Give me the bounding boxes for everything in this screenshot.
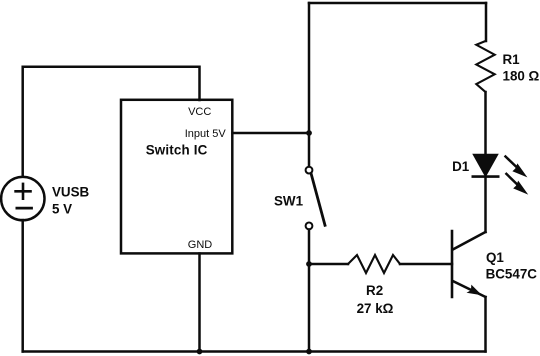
LED D1 triangle anode (474, 155, 498, 177)
svg-text:VUSB: VUSB (52, 185, 90, 200)
LED D1 light arrow 2 shaft (506, 174, 517, 185)
voltage source minus sign (17, 207, 32, 210)
wire R1 bottom to LED anode (484, 92, 487, 155)
node junction dot center rail/bottom (306, 349, 312, 355)
svg-text:180 Ω: 180 Ω (503, 69, 540, 84)
resistor R1 zigzag (476, 41, 494, 92)
wire left loop VUSB+ to VCC pin (23, 67, 200, 176)
svg-text:SW1: SW1 (274, 194, 304, 209)
switch SW1 bottom terminal (306, 223, 313, 230)
voltage source VUSB circle (1, 177, 44, 220)
switch SW1 blade (311, 174, 325, 225)
transistor Q1 collector stroke (453, 232, 486, 250)
svg-text:27 kΩ: 27 kΩ (357, 301, 394, 316)
svg-text:VCC: VCC (188, 106, 211, 118)
IC box Switch IC (121, 100, 232, 254)
switch SW1 top terminal (306, 167, 313, 174)
wire R2 to Q1 base (400, 263, 452, 266)
wire bottom rail (23, 350, 486, 353)
wire right rail upper (top to R1) (485, 3, 488, 41)
wire Q1 emitter to bottom rail (484, 297, 487, 352)
transistor Q1 emitter arrow head (467, 285, 483, 296)
svg-text:Switch IC: Switch IC (146, 143, 208, 158)
svg-text:Input 5V: Input 5V (185, 128, 227, 140)
resistor R2 zigzag (348, 255, 400, 273)
svg-text:R2: R2 (366, 283, 383, 298)
LED D1 cathode bar (473, 175, 498, 178)
transistor Q1 emitter stroke (453, 281, 486, 297)
node junction dot Input/center rail (306, 130, 312, 136)
wire center rail top (to switch) (308, 3, 311, 166)
node junction dot R2/center rail (306, 261, 312, 267)
svg-text:5 V: 5 V (52, 201, 72, 216)
wire R2 node to zigzag (309, 263, 348, 266)
svg-text:D1: D1 (452, 159, 470, 174)
LED D1 light arrow 1 head (512, 163, 527, 177)
wire Input 5V pin to center rail (233, 132, 310, 135)
wire LED cathode to Q1 collector corner (484, 177, 487, 232)
voltage source plus sign (16, 184, 31, 199)
node junction dot GND/bottom (197, 349, 203, 355)
svg-text:GND: GND (188, 239, 213, 251)
LED D1 light arrow 1 shaft (506, 157, 518, 168)
wire GND pin to bottom rail (198, 254, 201, 352)
svg-text:Q1: Q1 (486, 250, 504, 265)
wire top rail (309, 2, 486, 5)
svg-text:R1: R1 (503, 52, 521, 67)
wire switch bottom to bottom rail (308, 230, 311, 352)
transistor Q1 base bar (451, 231, 454, 297)
wire VUSB- down to bottom rail (21, 220, 24, 352)
LED D1 light arrow 2 head (513, 181, 528, 195)
svg-text:BC547C: BC547C (486, 267, 538, 282)
